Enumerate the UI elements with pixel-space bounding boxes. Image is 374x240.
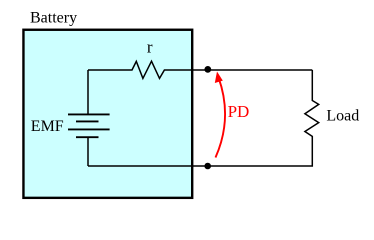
svg-text:Load: Load <box>326 107 359 124</box>
svg-text:PD: PD <box>228 102 250 121</box>
svg-text:r: r <box>147 38 153 57</box>
svg-text:EMF: EMF <box>31 118 64 135</box>
svg-text:Battery: Battery <box>30 10 77 27</box>
